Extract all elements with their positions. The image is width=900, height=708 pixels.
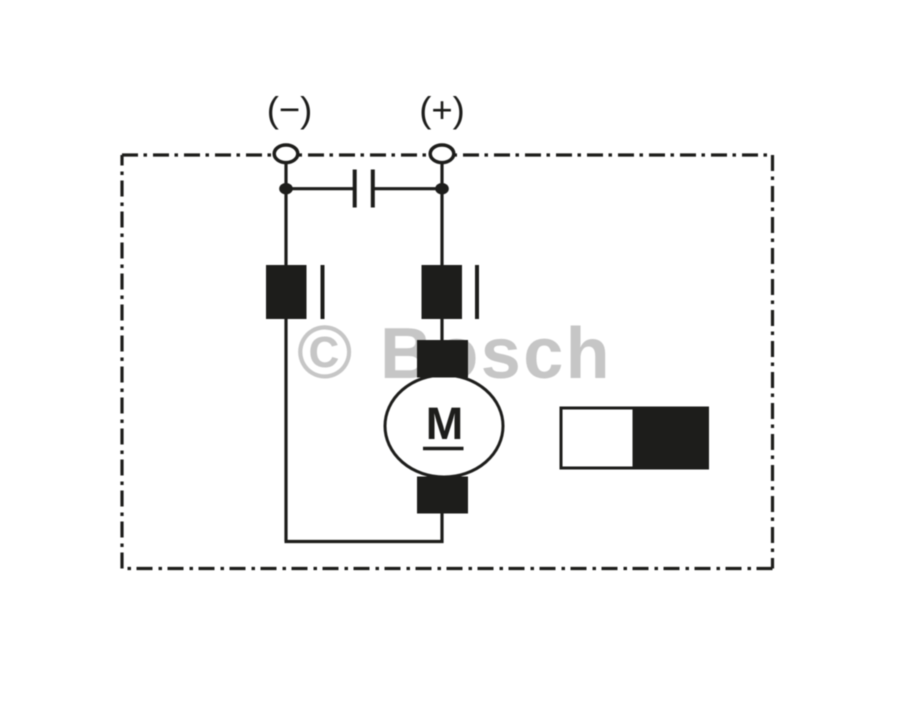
svg-text:(+): (+) [419, 89, 465, 130]
svg-text:M: M [426, 398, 464, 449]
svg-text:(−): (−) [267, 89, 313, 130]
svg-text:©: © [297, 310, 352, 394]
